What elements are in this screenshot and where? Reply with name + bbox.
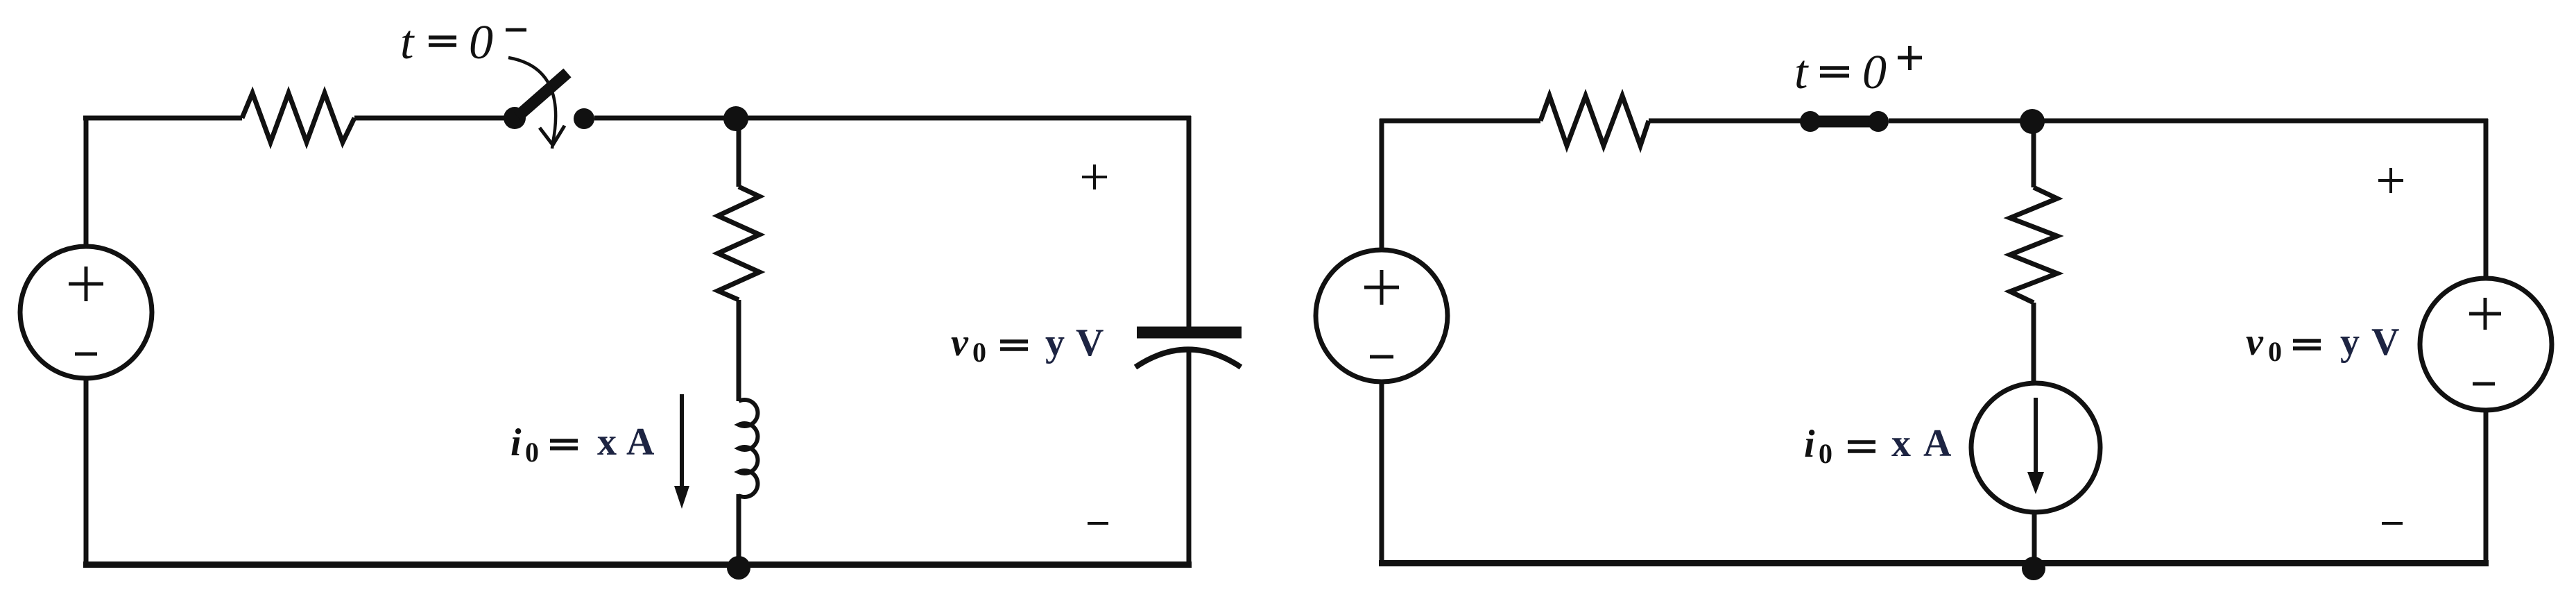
svg-text:v: v [2246,321,2264,364]
node D junction dot (bottom middle) [2022,557,2045,580]
svg-text:t: t [400,16,415,69]
capacitor C1 bottom curved plate [1135,350,1241,368]
current arrow i0 (down) [674,394,689,509]
IS1 arrow (down) [2027,398,2044,494]
resistor R3 (top, zigzag) [1540,96,1649,146]
wire below capacitor [1187,349,1192,566]
wire switch to node A [594,116,1191,121]
VS3 plus [2469,298,2501,330]
svg-text:0: 0 [469,16,493,69]
label t = 0 plus [1794,46,1922,99]
plus label (cap top) [1082,164,1107,189]
VS2 minus [1370,355,1393,359]
svg-text:0: 0 [525,437,539,468]
VS1 plus [69,267,103,301]
wire top-left horizontal (source to resistor) [1380,119,1540,124]
svg-text:0: 0 [1862,46,1887,99]
wire current source to bottom node [2032,512,2037,562]
label t = 0 minus [400,16,526,69]
inductor L1 (coil) [739,400,757,497]
svg-text:t: t [1794,46,1809,99]
capacitor C1 top plate [1137,327,1242,339]
voltage source VS3 (right edge) [2420,278,2552,410]
wire right vertical bottom (right circuit) [2484,410,2489,565]
wire bottom (right circuit) [1379,560,2489,566]
VS1 minus [75,353,97,356]
current source IS1 [1971,383,2100,512]
wire node C down to R4 [2032,121,2036,187]
wire left vertical top (right circuit) [1380,119,1384,250]
node B junction dot (bottom middle) [727,556,750,580]
left voltage source VS1 [20,246,152,378]
svg-text:y: y [2340,321,2360,364]
svg-text:0: 0 [1819,438,1832,469]
resistor R1 (top, zigzag) [242,93,354,142]
node A junction dot (top middle) [723,106,748,131]
wire switch to node C [1889,119,2488,124]
svg-text:0: 0 [2268,336,2282,367]
label i0 = x A (right) [1804,422,1952,469]
svg-text:v: v [951,321,969,364]
label v0 = y V (right) [2246,321,2399,367]
resistor R4 (middle branch, vertical zigzag) [2010,187,2057,303]
resistor R2 (middle branch, vertical zigzag) [718,187,759,300]
wire top-left horizontal (source to resistor) [83,116,242,121]
VS2 plus [1364,270,1399,305]
svg-text:V: V [1076,321,1104,364]
wire resistor to switch [354,116,515,121]
svg-text:A: A [626,421,655,464]
minus label (cap bottom) [1088,522,1108,525]
wire resistor to switch [1649,119,1808,124]
wire left vertical top [84,116,89,246]
svg-text:x: x [1891,422,1911,465]
wire right vertical top (right circuit) [2484,119,2489,278]
wire node A down to R2 [737,118,741,187]
svg-text:x: x [597,421,617,464]
wire R2 to inductor L1 [737,300,741,401]
minus label (outer, right circuit) [2382,522,2403,525]
VS3 minus [2473,382,2495,386]
wire left vertical bottom (right circuit) [1380,382,1384,564]
wire right vertical top (to capacitor) [1187,116,1192,328]
node C junction dot (top middle) [2020,109,2045,134]
label v0 = y V [951,321,1104,368]
wire bottom (left circuit) [83,561,1192,568]
wire R4 to current source [2032,303,2036,384]
switch SW1 open (blade, pivot dot, contact dot) [504,73,594,129]
label i0 = x A (left) [510,421,655,468]
svg-text:V: V [2371,321,2399,364]
svg-text:A: A [1923,422,1952,465]
wire inductor to bottom node [737,494,741,565]
plus label (outer, right circuit) [2378,168,2403,193]
switch SW2 closed (bar with end dots) [1800,111,1889,132]
svg-text:i: i [1804,423,1815,466]
wire left vertical bottom [84,378,89,566]
switch arc arrow [508,58,556,149]
svg-text:0: 0 [972,337,986,368]
svg-text:i: i [510,421,522,464]
right voltage source VS2 (left circle) [1316,250,1448,382]
svg-text:y: y [1045,321,1065,364]
